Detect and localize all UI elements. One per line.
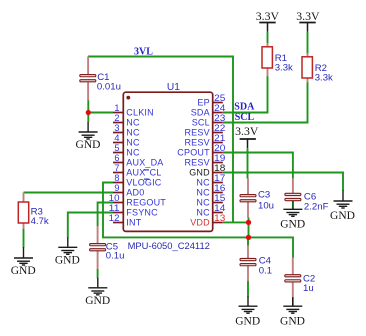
wire CPOUT pin20 to C6 xyxy=(223,153,293,179)
svg-text:SCL: SCL xyxy=(235,112,255,123)
svg-text:0.01u: 0.01u xyxy=(97,82,121,93)
svg-text:RESV: RESV xyxy=(184,138,209,148)
ground GND6 (right) xyxy=(334,191,353,209)
wire R3 to GND xyxy=(23,229,25,248)
svg-text:INT: INT xyxy=(126,218,141,228)
resistor R2 leads xyxy=(307,53,309,57)
wire C2 to GND xyxy=(292,297,294,306)
resistor R1 leads xyxy=(267,43,269,47)
node junction VDD xyxy=(246,220,251,225)
svg-text:NC: NC xyxy=(126,148,140,158)
svg-text:SCL: SCL xyxy=(192,118,210,128)
svg-text:NC: NC xyxy=(126,128,140,138)
svg-text:4.7k: 4.7k xyxy=(31,216,49,227)
svg-text:14: 14 xyxy=(214,203,225,213)
pin names left xyxy=(126,108,166,228)
svg-text:GND: GND xyxy=(55,255,80,267)
svg-text:MPU-6050_C24112: MPU-6050_C24112 xyxy=(128,240,210,251)
svg-text:EP: EP xyxy=(197,98,209,108)
svg-text:3: 3 xyxy=(114,123,119,133)
svg-text:1u: 1u xyxy=(303,283,314,294)
svg-text:2: 2 xyxy=(114,113,119,123)
svg-text:1: 1 xyxy=(114,103,119,113)
resistor R1 xyxy=(262,47,272,68)
svg-text:9: 9 xyxy=(114,183,119,193)
wire 3VL net: horizontal run and drop to VDD row xyxy=(88,57,233,223)
svg-text:20: 20 xyxy=(214,143,225,153)
wire C4 to GND xyxy=(247,281,249,296)
svg-text:C3: C3 xyxy=(258,190,270,201)
wire FSYNC pin11 to GND2 xyxy=(68,213,113,239)
svg-text:FSYNC: FSYNC xyxy=(126,208,158,218)
svg-text:AD0: AD0 xyxy=(126,188,144,198)
svg-text:21: 21 xyxy=(214,133,225,143)
svg-text:GND: GND xyxy=(85,295,110,307)
wire VDD pin13 to junction xyxy=(223,221,249,223)
wire GND pin18 to right ground xyxy=(223,173,343,192)
svg-text:GND: GND xyxy=(330,210,355,222)
capacitor C3 leads xyxy=(247,178,249,194)
ground GND7 (under C4) xyxy=(239,296,258,313)
svg-text:NC: NC xyxy=(196,198,210,208)
ground GND8 (under C2) xyxy=(283,306,302,313)
svg-text:NC: NC xyxy=(196,188,210,198)
right pin stubs 25-13 xyxy=(213,103,223,223)
node junction A (C1/CLKIN/GND) xyxy=(86,110,91,115)
svg-text:GND: GND xyxy=(11,265,36,277)
wire junction vertical (C1 bottom to GND) xyxy=(87,100,89,122)
capacitor C5 leads xyxy=(97,226,99,243)
pin numbers right xyxy=(214,93,225,223)
wire AD0 pin9 to R3 xyxy=(24,192,114,194)
svg-text:7: 7 xyxy=(114,163,119,173)
svg-text:GND: GND xyxy=(76,139,101,151)
capacitor C4 leads xyxy=(247,237,249,245)
ground GND2 (FSYNC) xyxy=(58,238,77,255)
svg-text:REGOUT: REGOUT xyxy=(126,198,166,208)
svg-text:RESV: RESV xyxy=(184,158,209,168)
svg-text:NC: NC xyxy=(196,178,210,188)
svg-text:11: 11 xyxy=(109,203,120,213)
svg-text:3.3V: 3.3V xyxy=(235,124,259,138)
svg-text:3.3k: 3.3k xyxy=(315,72,333,83)
svg-text:8: 8 xyxy=(114,173,119,183)
wire 3.3V to R2 xyxy=(307,32,309,53)
svg-text:3.3k: 3.3k xyxy=(275,62,293,73)
svg-text:18: 18 xyxy=(214,163,225,173)
svg-text:0.1u: 0.1u xyxy=(106,250,125,261)
capacitor C1 leads xyxy=(87,57,89,75)
pin AUX_CL overline xyxy=(144,169,149,170)
svg-text:AUXCL: AUXCL xyxy=(126,168,161,178)
capacitor C5 xyxy=(90,244,106,251)
svg-text:5: 5 xyxy=(114,143,119,153)
svg-text:GND: GND xyxy=(235,315,260,327)
resistor R3 leads xyxy=(23,193,25,203)
wire junction VDD down to bus xyxy=(248,222,250,237)
svg-text:0.1: 0.1 xyxy=(259,266,272,277)
svg-text:24: 24 xyxy=(214,103,225,113)
svg-text:22: 22 xyxy=(214,123,225,133)
svg-text:2.2nF: 2.2nF xyxy=(304,202,329,213)
svg-text:NC: NC xyxy=(126,118,140,128)
svg-text:17: 17 xyxy=(214,173,225,183)
ground GND3 (under R3) xyxy=(14,247,33,265)
svg-text:SDA: SDA xyxy=(191,108,210,118)
power 3.3V #1 (above R1) xyxy=(256,9,280,32)
svg-text:VDD: VDD xyxy=(190,218,210,228)
svg-text:3.3V: 3.3V xyxy=(296,9,320,23)
svg-text:10u: 10u xyxy=(258,200,274,211)
capacitor C2 xyxy=(285,275,301,282)
svg-text:CLKIN: CLKIN xyxy=(126,108,154,118)
svg-text:RESV: RESV xyxy=(184,128,209,138)
wire REGOUT pin10 to C5 xyxy=(98,203,113,227)
wire R1 to SDA row xyxy=(223,76,268,112)
wire 3.3V to C3 xyxy=(247,148,249,178)
svg-text:U1: U1 xyxy=(167,82,180,93)
wire C3 to VDD junction xyxy=(248,218,250,223)
svg-text:13: 13 xyxy=(214,213,225,223)
svg-text:23: 23 xyxy=(214,113,225,123)
svg-text:4: 4 xyxy=(114,133,119,143)
capacitor C6 leads xyxy=(292,178,294,193)
capacitor C4 xyxy=(240,258,256,265)
svg-text:GND: GND xyxy=(280,218,305,230)
svg-text:GND: GND xyxy=(189,168,210,178)
pin numbers left xyxy=(109,103,120,223)
resistor R3 xyxy=(18,202,28,223)
svg-text:3VL: 3VL xyxy=(134,46,153,57)
svg-text:AUX_DA: AUX_DA xyxy=(126,158,163,168)
capacitor C3 xyxy=(240,195,256,202)
svg-text:19: 19 xyxy=(214,153,225,163)
svg-text:NC: NC xyxy=(196,208,210,218)
wire VLOGIC pin8 bus to C2 xyxy=(103,183,293,258)
ground GND1 (under C1 junction) xyxy=(79,122,98,139)
power 3.3V #3 (above C3) xyxy=(235,124,259,148)
wire R2 to SCL row xyxy=(223,82,308,122)
svg-text:25: 25 xyxy=(214,93,225,103)
capacitor C6 xyxy=(285,193,301,200)
resistor R2 xyxy=(302,57,312,78)
svg-text:10: 10 xyxy=(109,193,120,203)
svg-text:15: 15 xyxy=(214,193,225,203)
node junction bus xyxy=(246,235,251,240)
left pin stubs 1-12 xyxy=(113,113,123,223)
svg-text:GND: GND xyxy=(280,315,305,327)
capacitor C1 xyxy=(80,75,96,82)
svg-text:CPOUT: CPOUT xyxy=(177,148,210,158)
op-amp U1 MPU-6050 IC body xyxy=(123,92,212,231)
svg-text:3.3V: 3.3V xyxy=(256,9,280,23)
ground GND5 (under C6) xyxy=(283,209,302,216)
svg-text:6: 6 xyxy=(114,153,119,163)
power 3.3V #2 (above R2) xyxy=(296,9,320,32)
svg-text:SDA: SDA xyxy=(234,102,255,113)
pin VLOGIC overline xyxy=(144,179,149,180)
svg-text:NC: NC xyxy=(126,138,140,148)
wire 3.3V to R1 xyxy=(267,32,269,43)
ground GND4 (under C5) xyxy=(88,278,107,295)
svg-text:16: 16 xyxy=(214,183,225,193)
svg-text:12: 12 xyxy=(109,213,120,223)
wire C5 to GND xyxy=(97,269,99,278)
capacitor C2 leads xyxy=(292,257,294,274)
pin 1 marker dot xyxy=(126,96,130,100)
wire CLKIN pin1 to junction and GND stem xyxy=(88,112,113,114)
pin names right xyxy=(177,98,210,228)
